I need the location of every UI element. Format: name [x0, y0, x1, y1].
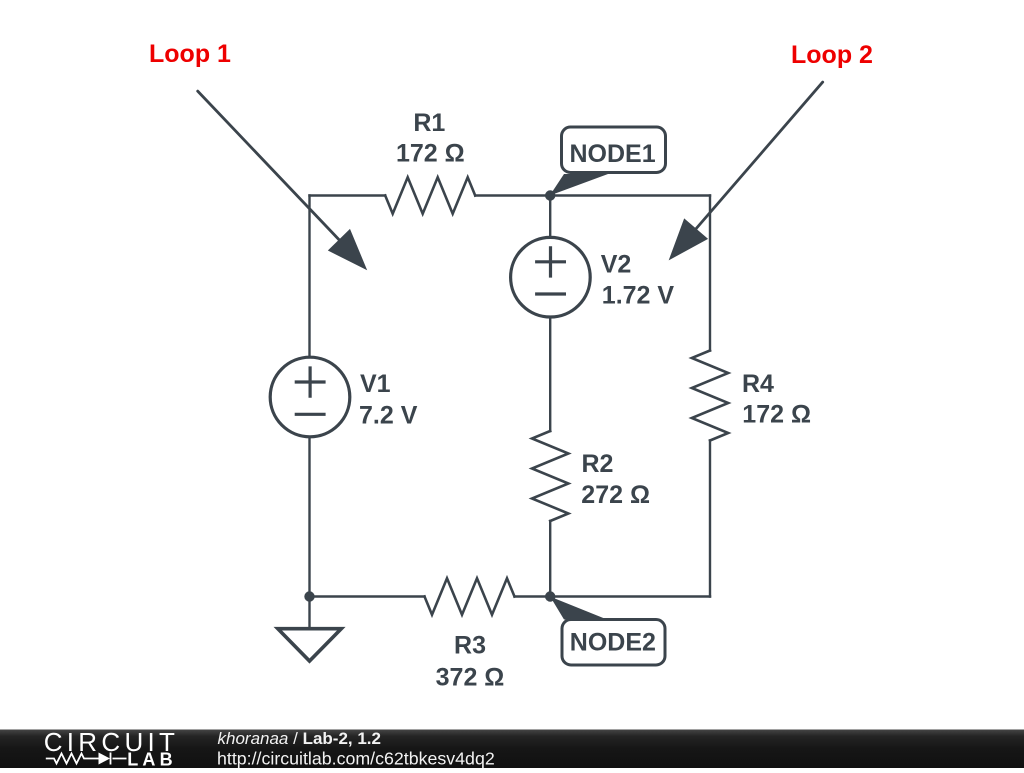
svg-text:172 Ω: 172 Ω: [396, 140, 465, 168]
svg-text:372 Ω: 372 Ω: [436, 663, 505, 691]
svg-text:7.2 V: 7.2 V: [359, 401, 418, 429]
svg-text:NODE1: NODE1: [570, 140, 656, 168]
svg-text:R4: R4: [742, 370, 774, 398]
svg-text:V1: V1: [360, 370, 391, 398]
svg-text:R2: R2: [582, 450, 614, 478]
svg-text:Loop 2: Loop 2: [791, 41, 873, 69]
svg-text:khoranaa / Lab-2, 1.2: khoranaa / Lab-2, 1.2: [218, 729, 381, 748]
svg-text:R3: R3: [454, 631, 486, 659]
svg-text:V2: V2: [601, 250, 632, 278]
svg-text:272 Ω: 272 Ω: [581, 481, 650, 509]
svg-text:NODE2: NODE2: [570, 629, 656, 657]
svg-text:172 Ω: 172 Ω: [742, 401, 811, 429]
svg-text:LAB: LAB: [127, 750, 177, 769]
svg-text:1.72 V: 1.72 V: [602, 281, 675, 309]
svg-text:R1: R1: [413, 109, 445, 137]
svg-text:Loop 1: Loop 1: [149, 40, 231, 68]
svg-text:http://circuitlab.com/c62tbkes: http://circuitlab.com/c62tbkesv4dq2: [217, 749, 495, 769]
